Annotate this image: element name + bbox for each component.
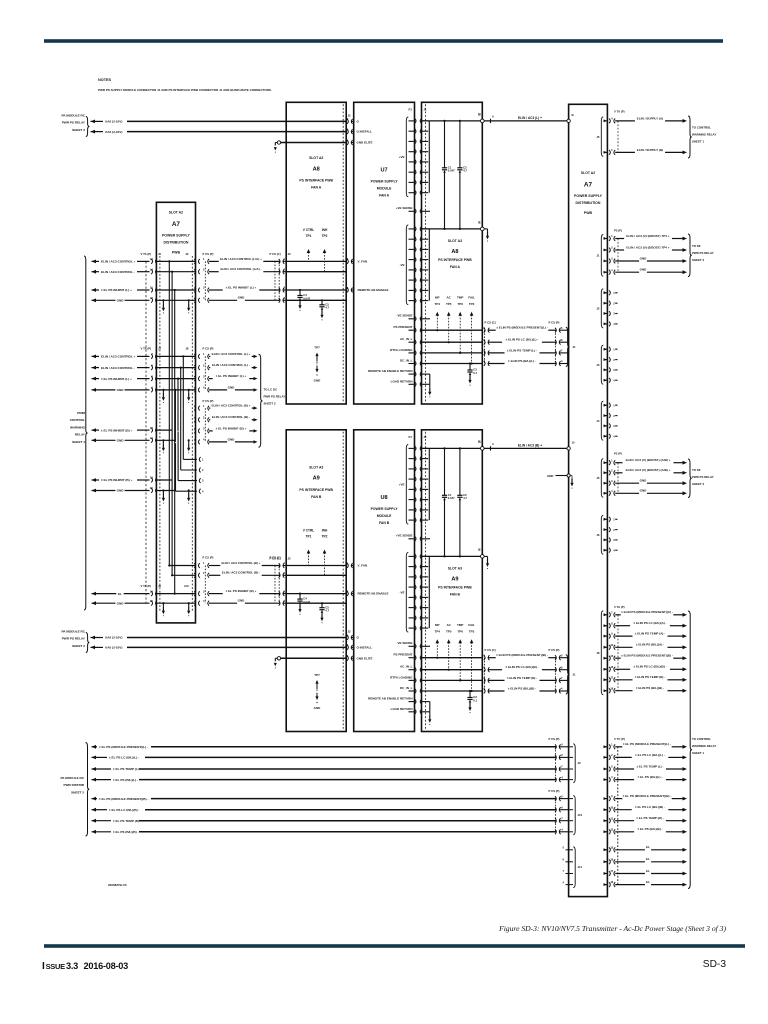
output pin 4 bbox=[604, 778, 607, 781]
control input ELIN / AC3 CONTROL + pin 7 bbox=[92, 355, 97, 359]
group bracket J6 bbox=[601, 515, 603, 554]
output wire ± ELIN PS (MODULE PRESENT)(A) - bbox=[615, 614, 621, 616]
dashed bus lines inside A7 left bbox=[159, 256, 161, 612]
svg-text:DC_IN_L: DC_IN_L bbox=[400, 686, 413, 690]
svg-text:± EL PS LC (B/L)(B) -: ± EL PS LC (B/L)(B) - bbox=[109, 808, 140, 812]
svg-text:TMP: TMP bbox=[457, 623, 463, 627]
control input ± EL PS INHIBIT (B) + pin 19 bbox=[92, 478, 97, 482]
connector brace into A7 bbox=[566, 655, 570, 694]
bus wire ± EL PS (MODULE PRESENT)(B) - bbox=[92, 797, 97, 801]
pin 46 O INSTALL bbox=[347, 129, 348, 134]
svg-text:± EL PS LC (B/L)(L) -: ± EL PS LC (B/L)(L) - bbox=[109, 756, 139, 760]
output pin 3 bbox=[604, 260, 607, 263]
svg-text:ELIN / AC3 CONTROL (B) +: ELIN / AC3 CONTROL (B) + bbox=[211, 404, 250, 408]
svg-text:J8: J8 bbox=[596, 651, 600, 655]
svg-text:GND: GND bbox=[640, 489, 648, 493]
capacitor C1 bbox=[443, 447, 445, 449]
control wire pin 3 bbox=[279, 591, 280, 596]
connector dashed line bbox=[278, 566, 280, 604]
svg-text:J5: J5 bbox=[158, 252, 162, 256]
signal wire RTFA LOADING bbox=[422, 679, 483, 681]
left connector dashed line bbox=[145, 261, 147, 603]
svg-text:± EL PS INHIBIT (B) +: ± EL PS INHIBIT (B) + bbox=[216, 426, 247, 430]
svg-text:O INSTALL: O INSTALL bbox=[357, 130, 373, 134]
signal wire DC_IN_L bbox=[422, 363, 483, 365]
control input GND pin 12 bbox=[92, 298, 97, 302]
control input EL pin 19 bbox=[92, 592, 97, 596]
svg-text:SHEET 2: SHEET 2 bbox=[71, 790, 84, 794]
svg-text:ELIN / AC3 CONTROL (L) -: ELIN / AC3 CONTROL (L) - bbox=[212, 363, 250, 367]
svg-text:REMOTE AB ENABLE RETURN: REMOTE AB ENABLE RETURN bbox=[368, 369, 412, 373]
svg-text:TMP: TMP bbox=[457, 295, 463, 299]
svg-text:P3 (P): P3 (P) bbox=[614, 229, 622, 233]
brace TO LC DC bbox=[259, 354, 263, 447]
PS interface PWB A8 left section box (FAN B) bbox=[286, 430, 346, 732]
svg-text:0.047: 0.047 bbox=[303, 600, 310, 604]
svg-text:TP2: TP2 bbox=[322, 234, 328, 238]
output pin 17 bbox=[604, 678, 607, 681]
svg-text:NOTES: NOTES bbox=[98, 78, 112, 82]
dashed connector line bbox=[617, 463, 619, 494]
capacitor C1 bbox=[443, 120, 445, 122]
pin REMOTE AB ENABLE RETURN bbox=[409, 373, 414, 375]
output wire ± EL PS (B/L)(B) - bbox=[615, 831, 634, 833]
svg-text:FAN B: FAN B bbox=[379, 521, 390, 525]
svg-text:PWR PS RELAY: PWR PS RELAY bbox=[62, 121, 86, 125]
svg-text:P CS (C): P CS (C) bbox=[485, 648, 496, 652]
wires crossing A7 left box bbox=[156, 260, 195, 262]
svg-text:SLOT A3: SLOT A3 bbox=[309, 466, 323, 470]
svg-text:± EL PS (MODULE PRESENT)(L) -: ± EL PS (MODULE PRESENT)(L) - bbox=[99, 745, 148, 749]
signal wire AC_IN_L bbox=[422, 341, 483, 343]
svg-text:EL: EL bbox=[646, 880, 650, 884]
interconnect wire ± ELIN PS TEMP (L) - bbox=[484, 351, 485, 356]
svg-text:GND: GND bbox=[238, 296, 246, 300]
svg-text:I: I bbox=[42, 961, 45, 972]
svg-text:UA0 (2-10V): UA0 (2-10V) bbox=[105, 636, 122, 640]
svg-text:TP1: TP1 bbox=[306, 535, 312, 539]
svg-text:± EL PS TEMP (B) -: ± EL PS TEMP (B) - bbox=[113, 819, 141, 823]
svg-text:PWR PS RELAY: PWR PS RELAY bbox=[264, 395, 286, 399]
svg-text:DISTRIBUTION: DISTRIBUTION bbox=[576, 201, 601, 205]
svg-text:± EL PS INHIBIT (B) +: ± EL PS INHIBIT (B) + bbox=[226, 589, 257, 593]
svg-text:4.7: 4.7 bbox=[463, 496, 467, 500]
pin 23 V_FAN bbox=[347, 259, 348, 264]
A7 right distribution box bbox=[569, 104, 608, 896]
output pin 1 bbox=[604, 291, 607, 294]
connector dashed line bbox=[278, 261, 280, 300]
svg-text:UA0 (2-10V): UA0 (2-10V) bbox=[105, 646, 122, 650]
svg-text:TP1: TP1 bbox=[306, 234, 312, 238]
bridge bar joining -VE pins bbox=[428, 229, 430, 301]
svg-text:J11: J11 bbox=[578, 865, 583, 869]
control wire pin 1 bbox=[279, 563, 280, 568]
output wire ELIN / AC3 (V) (BOOST) (A/B) + bbox=[615, 462, 622, 464]
control input GND pin 20 bbox=[92, 489, 97, 493]
output pin 17 bbox=[604, 872, 607, 875]
svg-text:+VE SENSE: +VE SENSE bbox=[396, 206, 413, 210]
svg-text:PWR PS RELAY: PWR PS RELAY bbox=[62, 637, 86, 641]
svg-text:ELIN / AC3 CONTROL (L/A) +: ELIN / AC3 CONTROL (L/A) + bbox=[220, 257, 262, 261]
output pin 4 bbox=[604, 379, 607, 382]
E bus wire bbox=[422, 228, 483, 230]
svg-text:PWR DISTRIB: PWR DISTRIB bbox=[64, 783, 85, 787]
group bracket J5 bbox=[601, 117, 603, 156]
control input GND pin 4 bbox=[92, 388, 97, 392]
svg-text:FAN B: FAN B bbox=[450, 593, 461, 597]
svg-text:TP3: TP3 bbox=[469, 629, 475, 633]
input wire UA0 lower bbox=[127, 131, 346, 133]
pin +VE SENSE bbox=[409, 538, 414, 540]
svg-text:J8: J8 bbox=[185, 347, 189, 351]
output wire ELIN / AC3 (V) (BOOST) TP4 + bbox=[615, 249, 624, 251]
pin +VE SENSE bbox=[409, 210, 414, 212]
svg-text:ELIN / AC3 CONTROL (B) -: ELIN / AC3 CONTROL (B) - bbox=[222, 571, 260, 575]
svg-text:ELIN / AC3 (V) (BOOST) TP4 +: ELIN / AC3 (V) (BOOST) TP4 + bbox=[626, 245, 669, 249]
output wire ± ELIN PS (MODULE PRESENT)(B) - bbox=[615, 657, 621, 659]
svg-text:GND: GND bbox=[640, 479, 648, 483]
svg-text:GND: GND bbox=[117, 388, 125, 392]
output pin 7 bbox=[604, 613, 607, 616]
svg-text:SLOT A3: SLOT A3 bbox=[448, 239, 462, 243]
interconnect wire ± ELIN PS TEMP (B) - bbox=[484, 678, 485, 683]
output pin 18 bbox=[604, 883, 607, 886]
output pin 1 bbox=[604, 745, 607, 748]
output wire GND bbox=[615, 492, 639, 494]
bottom title bar bbox=[44, 944, 745, 948]
output pin 10 bbox=[604, 646, 607, 649]
pin group bracket -VE bbox=[406, 552, 408, 632]
svg-text:LOAD RETURN: LOAD RETURN bbox=[391, 707, 413, 711]
svg-text:PWR PS SUPPLY MODULE CONNECTOR: PWR PS SUPPLY MODULE CONNECTOR J1 AND PS… bbox=[98, 88, 272, 92]
stub pins group bottom left bbox=[566, 849, 574, 851]
signal wire PS PRESENT bbox=[422, 329, 483, 331]
svg-text:± EL PS INHIBIT (L) +: ± EL PS INHIBIT (L) + bbox=[101, 377, 132, 381]
control input GND pin 20 bbox=[92, 601, 97, 605]
output wire ± ELIN PS LC (B/L)(A) - bbox=[615, 625, 630, 627]
pin AC_IN_L bbox=[409, 341, 414, 343]
control input ± EL PS INHIBIT (B) + pin 13 bbox=[92, 428, 97, 432]
bus wire ± EL PS LC (B/L)(B) - bbox=[92, 808, 97, 812]
output wire EL bbox=[615, 873, 645, 875]
pin group bracket -VE bbox=[406, 225, 408, 305]
output pin 2 bbox=[604, 471, 607, 474]
svg-text:± ELIN PS (B/L)(A) -: ± ELIN PS (B/L)(A) - bbox=[636, 643, 664, 647]
output pin 4 bbox=[604, 549, 607, 552]
svg-text:4.7: 4.7 bbox=[325, 306, 329, 310]
output pin 4 bbox=[604, 271, 607, 274]
B bus wire bbox=[422, 120, 483, 122]
output wire ± EL PS (MODULE PRESENT)(L) - bbox=[615, 746, 622, 748]
PS interface PWB A8 right section box (FAN B) bbox=[422, 430, 483, 732]
svg-text:MP: MP bbox=[435, 623, 440, 627]
power supply module U8 box bbox=[354, 430, 415, 732]
output pin 3 bbox=[604, 768, 607, 771]
ground drops inside A7 left bbox=[162, 300, 164, 303]
interconnect wire ± ELIN PS (MODULE PRESENT)(B) - bbox=[484, 655, 485, 660]
svg-text:± ELIN PS LC (B/L)(A) -: ± ELIN PS LC (B/L)(A) - bbox=[633, 621, 666, 625]
svg-text:0.1: 0.1 bbox=[473, 698, 477, 702]
brace to RF PWR relay bottom bbox=[688, 459, 692, 498]
svg-text:DC_IN_L: DC_IN_L bbox=[400, 359, 413, 363]
svg-text:± EL PS INHIBIT (L) +: ± EL PS INHIBIT (L) + bbox=[226, 285, 257, 289]
svg-text:0.047: 0.047 bbox=[448, 169, 455, 173]
output wire GND bbox=[615, 271, 639, 273]
svg-text:P CS (P): P CS (P) bbox=[549, 789, 560, 793]
svg-text:V TA (P): V TA (P) bbox=[141, 252, 152, 256]
svg-text:O INSTALL: O INSTALL bbox=[357, 646, 373, 650]
bridge bar joining +VE pins bbox=[428, 121, 430, 193]
pin RTFA LOADING bbox=[409, 352, 414, 354]
svg-text:± ELIN PS (MODULE PRESENT)(A): ± ELIN PS (MODULE PRESENT)(A) - bbox=[621, 610, 673, 614]
capacitor C4 bbox=[299, 594, 301, 600]
svg-text:SLOT A3: SLOT A3 bbox=[448, 567, 462, 571]
svg-text:± ELIN PS (B/L)(B) -: ± ELIN PS (B/L)(B) - bbox=[636, 686, 664, 690]
control wire pin 4 bbox=[279, 601, 280, 606]
svg-text:A9: A9 bbox=[451, 577, 458, 583]
svg-text:J1: J1 bbox=[573, 672, 577, 676]
svg-text:PS PRESENT: PS PRESENT bbox=[393, 653, 412, 657]
svg-text:TP5: TP5 bbox=[446, 629, 452, 633]
svg-text:A7: A7 bbox=[584, 182, 593, 189]
jog verticals for B-group bbox=[182, 356, 184, 408]
group bracket J3 bbox=[601, 345, 603, 384]
output wire ± EL PS LC (B/L)(L) - bbox=[615, 756, 632, 758]
signal wire RTFA LOADING bbox=[422, 352, 483, 354]
interconnect wire ± ELIN PS LC (B/L)(L) - bbox=[484, 340, 485, 345]
svg-text:J6: J6 bbox=[596, 533, 600, 537]
svg-text:± ELIN PS TEMP (A) -: ± ELIN PS TEMP (A) - bbox=[635, 632, 666, 636]
pin DC_IN_L bbox=[409, 363, 414, 365]
svg-text:± EL PS (B/L)(B) -: ± EL PS (B/L)(B) - bbox=[637, 827, 662, 831]
svg-text:GND ELITE: GND ELITE bbox=[357, 656, 373, 660]
pin group bracket +VE bbox=[406, 444, 408, 524]
output pin 3 bbox=[604, 312, 607, 315]
svg-text:ELIN / SUPPLY (A): ELIN / SUPPLY (A) bbox=[637, 116, 663, 120]
output wire ELIN / SUPPLY (A) bbox=[615, 120, 635, 122]
svg-text:SHEET 1: SHEET 1 bbox=[72, 440, 85, 444]
svg-text:SLOT A3: SLOT A3 bbox=[309, 156, 323, 160]
svg-text:PS INTERFACE PWB: PS INTERFACE PWB bbox=[438, 586, 472, 590]
svg-text:P CS (P): P CS (P) bbox=[203, 556, 214, 560]
pin ladder -VE group bbox=[409, 555, 414, 557]
svg-text:GND: GND bbox=[117, 299, 125, 303]
svg-text:GND: GND bbox=[640, 256, 648, 260]
svg-text:ELIN / AC3 (V) (BOOST) TP4 +: ELIN / AC3 (V) (BOOST) TP4 + bbox=[626, 234, 669, 238]
svg-text:U8: U8 bbox=[381, 495, 388, 501]
svg-text:V TC (P): V TC (P) bbox=[614, 737, 625, 741]
dashed bus line inside right interface pwb bbox=[424, 104, 426, 402]
svg-text:+VE: +VE bbox=[399, 483, 405, 487]
svg-text:± EL PS (MODULE PRESENT)(L) -: ± EL PS (MODULE PRESENT)(L) - bbox=[623, 742, 671, 746]
bus wire ± EL PS TEMP (B) - bbox=[92, 819, 97, 823]
svg-text:GND: GND bbox=[314, 379, 322, 383]
input wire UA0 upper bbox=[127, 120, 346, 122]
svg-text:P CS (P): P CS (P) bbox=[203, 252, 214, 256]
capacitor C2 bbox=[459, 120, 461, 122]
control wire pin 2 bbox=[279, 269, 280, 274]
svg-text:-VE: -VE bbox=[399, 591, 404, 595]
output pin 8 bbox=[604, 624, 607, 627]
pin LOAD RETURN bbox=[409, 383, 414, 385]
svg-text:J3: J3 bbox=[596, 363, 600, 367]
input wire UA0 lower bbox=[127, 646, 346, 648]
svg-text:FAIL: FAIL bbox=[468, 295, 475, 299]
svg-text:UA0 (2-10V): UA0 (2-10V) bbox=[105, 120, 122, 124]
control input ± EL PS INHIBIT (L) + pin 11 bbox=[92, 288, 97, 292]
dashed bus line inside interface pwb bbox=[342, 104, 344, 402]
svg-text:4.7: 4.7 bbox=[463, 169, 467, 173]
svg-text:SHEET 2: SHEET 2 bbox=[72, 644, 85, 648]
svg-text:RELAY: RELAY bbox=[75, 433, 86, 437]
svg-text:RTFA LOADING: RTFA LOADING bbox=[390, 348, 413, 352]
svg-text:P CS (P): P CS (P) bbox=[549, 320, 560, 324]
svg-text:± ELIN PS LC (B/L)(B) -: ± ELIN PS LC (B/L)(B) - bbox=[505, 665, 538, 669]
pin -VE SENSE bbox=[409, 645, 414, 647]
control wire pin 2 bbox=[279, 573, 280, 578]
svg-text:LOAD RETURN: LOAD RETURN bbox=[391, 379, 413, 383]
svg-text:V_FAN: V_FAN bbox=[358, 260, 368, 264]
group bracket J8 bbox=[601, 611, 603, 695]
A7 left distribution box bbox=[156, 202, 195, 623]
output wire ± EL PS TEMP (L) - bbox=[615, 768, 634, 770]
tall left bracket for control wires bbox=[84, 256, 88, 610]
svg-text:J2: J2 bbox=[596, 307, 600, 311]
svg-text:P CS (P): P CS (P) bbox=[549, 648, 560, 652]
svg-text:FAIL: FAIL bbox=[468, 623, 475, 627]
svg-text:WARNING RELAY: WARNING RELAY bbox=[692, 133, 716, 137]
svg-text:± ELIN PS LC (B/L)(L) -: ± ELIN PS LC (B/L)(L) - bbox=[506, 338, 539, 342]
output pin 2 bbox=[604, 358, 607, 361]
output wire ELIN / AC3 (V) (BOOST) TP4 + bbox=[615, 238, 624, 240]
control wire pin 3 bbox=[279, 288, 280, 293]
svg-text:4.7: 4.7 bbox=[325, 609, 329, 613]
output pin 3 bbox=[604, 482, 607, 485]
dashed bus line inside right interface pwb bbox=[424, 432, 426, 730]
svg-text:U7: U7 bbox=[381, 168, 388, 174]
A7L right connector dashed lines bbox=[204, 261, 206, 300]
svg-text:3.3: 3.3 bbox=[66, 961, 78, 971]
svg-text:FAN A: FAN A bbox=[450, 265, 461, 269]
control wire pin 1 bbox=[279, 259, 280, 264]
vertical bus line 1 bbox=[168, 261, 170, 565]
svg-text:J9: J9 bbox=[578, 761, 582, 765]
svg-text:TP5: TP5 bbox=[446, 302, 452, 306]
output wire ± ELIN PS TEMP (A) - bbox=[615, 635, 632, 637]
svg-text:-VE: -VE bbox=[399, 263, 404, 267]
svg-text:± EL PS LC (B/L)(B) -: ± EL PS LC (B/L)(B) - bbox=[635, 805, 665, 809]
shield node circle and wire bbox=[277, 657, 280, 660]
svg-text:GND: GND bbox=[640, 268, 648, 272]
svg-text:GND: GND bbox=[117, 601, 125, 605]
pin 46 O INSTALL bbox=[347, 645, 348, 650]
output pin 12 bbox=[604, 830, 607, 833]
svg-text:INH: INH bbox=[322, 228, 328, 232]
interconnect wire ± ELIN PS LC (B/L)(B) - bbox=[484, 667, 485, 672]
output wire ELIN / AC3 (V) (BOOST) (A/B) + bbox=[615, 472, 622, 474]
wire B to A7 box bbox=[484, 447, 568, 449]
svg-text:DISTRIBUTION: DISTRIBUTION bbox=[163, 241, 188, 245]
output wire GND bbox=[615, 482, 639, 484]
svg-text:-VE SENSE: -VE SENSE bbox=[396, 314, 412, 318]
svg-text:PA MODULE RC: PA MODULE RC bbox=[60, 776, 84, 780]
svg-text:GND: GND bbox=[228, 437, 236, 441]
svg-text:2000827B-V3: 2000827B-V3 bbox=[108, 883, 127, 887]
svg-text:PRIM: PRIM bbox=[77, 411, 85, 415]
output pin 1 bbox=[604, 404, 607, 407]
svg-text:Figure SD-3: NV10/NV7.5 Transm: Figure SD-3: NV10/NV7.5 Transmitter - Ac… bbox=[498, 924, 726, 933]
svg-text:± ELIN PS (B/L)(L) -: ± ELIN PS (B/L)(L) - bbox=[508, 359, 536, 363]
bridge bar joining +VE pins bbox=[428, 448, 430, 520]
svg-text:PWB: PWB bbox=[172, 251, 181, 255]
shield ground bbox=[274, 147, 277, 150]
pin DC_IN_L bbox=[409, 690, 414, 692]
pin 43 O bbox=[347, 119, 348, 124]
svg-text:TP4: TP4 bbox=[435, 302, 441, 306]
input arrows and labels UA0 bbox=[91, 120, 96, 124]
svg-text:P CS (C): P CS (C) bbox=[270, 252, 281, 256]
output pin 5 bbox=[604, 151, 607, 154]
signal wire DC_IN_L bbox=[422, 690, 483, 692]
capacitor C4 bbox=[299, 290, 301, 296]
bus wire ± EL PS (B/L)(L) - bbox=[92, 778, 97, 782]
E ground stub bbox=[484, 555, 487, 557]
svg-text:ELIN / AC3 CONTROL (B) -: ELIN / AC3 CONTROL (B) - bbox=[212, 415, 250, 419]
svg-text:INH: INH bbox=[322, 529, 328, 533]
output wire ELIN / SUPPLY (B) bbox=[615, 151, 635, 153]
bus wire ± EL PS TEMP (L) - bbox=[92, 767, 97, 771]
svg-text:POWER SUPPLY: POWER SUPPLY bbox=[162, 234, 191, 238]
svg-text:A8: A8 bbox=[313, 167, 320, 173]
B entry node bottom bbox=[567, 447, 570, 450]
bus wire ± EL PS LC (B/L)(L) - bbox=[92, 756, 97, 760]
svg-text:CONTROL: CONTROL bbox=[70, 418, 85, 422]
output pin 18 bbox=[604, 689, 607, 692]
pin PS PRESENT bbox=[409, 329, 414, 331]
capacitor C5 bbox=[321, 300, 323, 305]
svg-text:AC_IN_L: AC_IN_L bbox=[400, 337, 413, 341]
svg-text:GND: GND bbox=[547, 474, 553, 478]
svg-text:TP6: TP6 bbox=[457, 629, 463, 633]
svg-text:AC_IN_L: AC_IN_L bbox=[400, 665, 413, 669]
connector brace into A7 bbox=[566, 327, 570, 366]
input wire UA0 upper bbox=[127, 637, 346, 639]
output wire ± ELIN PS (B/L)(B) - bbox=[615, 690, 632, 692]
signal wire PS PRESENT bbox=[422, 657, 483, 659]
svg-text:± ELIN PS TEMP (B) -: ± ELIN PS TEMP (B) - bbox=[635, 675, 666, 679]
svg-text:EL: EL bbox=[646, 869, 650, 873]
svg-text:TO RF: TO RF bbox=[692, 244, 701, 248]
svg-text:FAN B: FAN B bbox=[311, 495, 322, 499]
svg-text:± EL PS (B/L)(L) -: ± EL PS (B/L)(L) - bbox=[113, 778, 138, 782]
PS interface PWB A8 right section box (FAN A) bbox=[422, 102, 483, 404]
pin 45 GND ELITE bbox=[347, 656, 348, 661]
svg-text:-VE SENSE: -VE SENSE bbox=[396, 641, 412, 645]
svg-text:MP: MP bbox=[435, 295, 440, 299]
output pin 2 bbox=[604, 756, 607, 759]
output pin 10 bbox=[604, 808, 607, 811]
svg-text:MODULE: MODULE bbox=[377, 514, 392, 518]
svg-text:GND ELITE: GND ELITE bbox=[357, 141, 373, 145]
wire B to A7 box bbox=[484, 120, 568, 122]
bus wire ± EL PS (B/L)(B) - bbox=[92, 830, 97, 834]
module output pin ladder bbox=[409, 120, 414, 122]
pin -VE SENSE bbox=[409, 318, 414, 320]
svg-text:± ELIN PS (MODULE PRESENT)(B): ± ELIN PS (MODULE PRESENT)(B) - bbox=[621, 654, 673, 658]
svg-text:SD-3: SD-3 bbox=[703, 959, 727, 970]
B bus wire bbox=[422, 447, 483, 449]
output pin 3 bbox=[604, 368, 607, 371]
